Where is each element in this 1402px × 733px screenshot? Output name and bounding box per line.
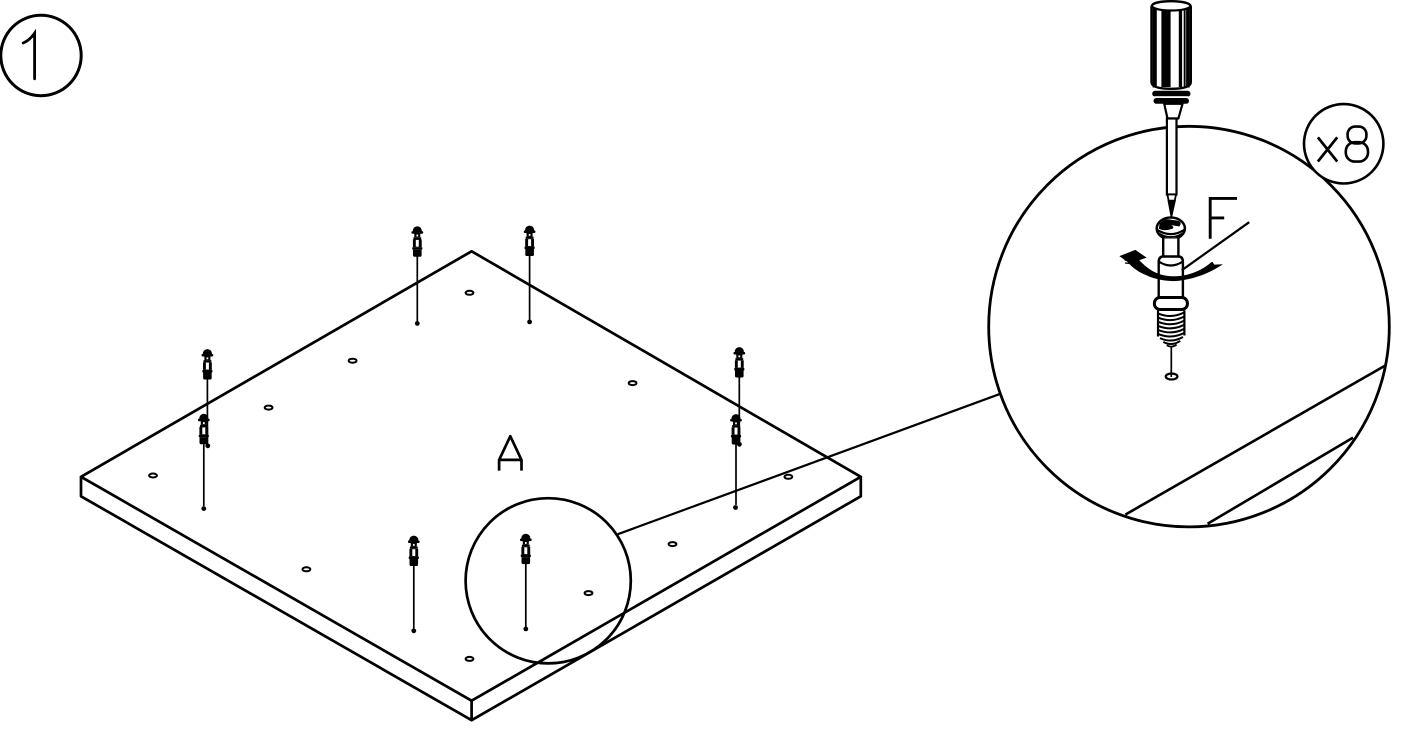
fitting F collar [1154, 298, 1187, 310]
small callout circle [466, 498, 631, 663]
fitting F body [1159, 257, 1183, 300]
letter A label [499, 436, 521, 470]
pilot hole in detail [1166, 374, 1178, 380]
big detail circle [989, 126, 1390, 527]
label F leader line [1182, 222, 1250, 270]
screwdriver handle [1152, 1, 1191, 89]
leader line to detail circle [618, 394, 1001, 534]
screwdriver neck taper [1164, 104, 1182, 119]
fitting F threads [1158, 311, 1184, 347]
fitting F pilot line [1170, 347, 1172, 377]
cam bolt F left upper [202, 349, 214, 379]
rotation arrow [1119, 250, 1222, 281]
cam bolt F right upper [733, 347, 745, 377]
x8 quantity badge [1304, 104, 1383, 183]
panel A top face [81, 251, 861, 700]
pilot hole dots [201, 320, 741, 634]
step number badge circle 1 [1, 15, 81, 95]
cam bolt F left lower [198, 414, 210, 444]
board edge chord lower in detail [1208, 438, 1353, 524]
panel A thickness edges [81, 477, 861, 720]
cam bolt F bottom-right in callout [520, 534, 532, 564]
cam bolt F top-right [524, 226, 536, 256]
label F [1210, 198, 1237, 238]
cam bolt F right lower [730, 414, 742, 444]
fitting F cap [1157, 218, 1185, 240]
board edge chord upper in detail [1125, 365, 1385, 514]
panel holes [149, 291, 792, 661]
guide lines of bolts [204, 256, 740, 629]
cam bolt F bottom-left [408, 536, 420, 566]
screwdriver shaft [1167, 119, 1177, 218]
fitting F neck [1163, 239, 1178, 258]
cam bolt F top-left [411, 226, 423, 256]
screwdriver ferrule [1152, 91, 1190, 104]
